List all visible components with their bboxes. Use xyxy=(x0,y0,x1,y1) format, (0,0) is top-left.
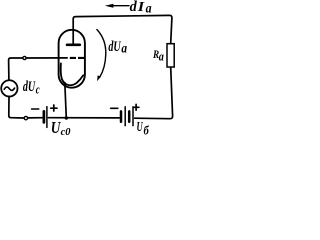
wire: Ub to junction to Uc0 xyxy=(48,117,119,119)
cathode loop xyxy=(61,63,83,85)
minus sign of Uc0 xyxy=(32,108,39,110)
battery Ub plates xyxy=(120,111,123,121)
cathode lead down to junction xyxy=(65,83,67,118)
plus sign of Ub xyxy=(133,104,139,110)
svg-text:а: а xyxy=(146,1,153,16)
svg-text:U: U xyxy=(137,120,144,134)
svg-text:б: б xyxy=(144,123,150,137)
sine symbol xyxy=(4,87,14,90)
terminal circle grid wire xyxy=(23,56,26,59)
svg-text:а: а xyxy=(159,49,164,63)
wire: source up to left top corner and toward grid terminal xyxy=(9,58,23,80)
svg-text:I: I xyxy=(137,0,146,15)
junction node xyxy=(65,116,68,119)
svg-text:d: d xyxy=(130,0,138,15)
wire: anode lead up, top wire, right wire down to resistor xyxy=(73,15,172,44)
svg-text:dU: dU xyxy=(23,78,36,94)
battery Uc0 plates xyxy=(43,111,46,122)
svg-text:dU: dU xyxy=(108,38,121,54)
svg-text:с: с xyxy=(36,84,40,97)
plus sign of Uc0 xyxy=(51,105,57,111)
tube envelope xyxy=(59,30,85,88)
minus sign of Ub xyxy=(111,107,118,109)
wire: resistor bottom down to corner and left to battery Ub xyxy=(135,67,173,119)
arrow dIa xyxy=(112,5,129,7)
arrow dUa arc xyxy=(97,30,106,78)
wire: terminal to grid, solid part inside tube xyxy=(26,57,67,59)
resistor Ra body xyxy=(167,44,174,67)
grid dashes xyxy=(70,57,85,59)
terminal circle bottom xyxy=(24,116,27,119)
anode plate bar xyxy=(67,43,80,46)
wire: terminal to left corner, up to source xyxy=(9,96,24,118)
wire: Uc0 to bottom terminal xyxy=(28,117,42,119)
svg-text:с0: с0 xyxy=(61,126,71,138)
svg-text:а: а xyxy=(121,41,127,56)
AC source circle xyxy=(1,80,17,96)
